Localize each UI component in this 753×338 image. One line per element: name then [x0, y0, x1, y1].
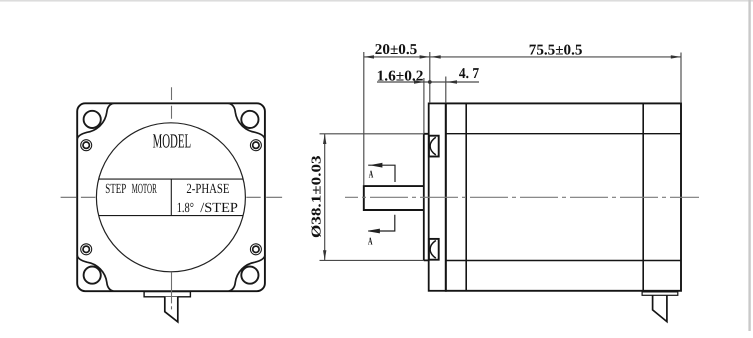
section marker top	[368, 165, 395, 182]
motor face square	[77, 103, 265, 291]
arrow dia bottom	[323, 250, 326, 260]
corner ear TR	[229, 103, 265, 150]
ext line body rear	[680, 53, 682, 104]
svg-text:Ø38.1±0.03: Ø38.1±0.03	[309, 155, 324, 238]
face circle	[96, 123, 245, 272]
vertical centerline top	[171, 87, 173, 118]
svg-text:2-PHASE: 2-PHASE	[186, 182, 229, 197]
arrow 75.5 right	[671, 55, 681, 58]
arrow 20 left	[364, 55, 374, 58]
svg-text:MODEL: MODEL	[153, 130, 192, 152]
arrow 20 right	[420, 55, 430, 58]
dia38.1 dim line	[324, 134, 326, 260]
front cap boundary	[465, 103, 467, 290]
bottom ear band line	[446, 260, 681, 262]
page right border	[748, 0, 750, 331]
label band bottom line	[99, 215, 244, 217]
svg-text:STEP: STEP	[105, 182, 126, 197]
body outline	[446, 103, 681, 290]
dim line 1.6 / 4.7	[377, 81, 479, 83]
arrow 1.6	[414, 80, 424, 83]
svg-text:A: A	[368, 236, 373, 247]
vertical centerline bottom	[171, 272, 173, 309]
front view centerlines	[61, 87, 283, 309]
svg-text:75.5±0.5: 75.5±0.5	[529, 42, 583, 58]
pilot boss	[424, 134, 429, 261]
junction dot	[428, 80, 432, 84]
svg-text:1.8°: 1.8°	[177, 201, 194, 216]
corner ear BR	[229, 244, 265, 291]
horizontal centerline right	[246, 196, 282, 198]
bottom connector base	[144, 292, 190, 297]
ext line shaft end	[363, 52, 365, 186]
page top border	[0, 0, 753, 2]
arrow 75.5 left	[431, 55, 441, 58]
dia38.1 ext top	[320, 133, 425, 135]
corner ear BL	[77, 244, 113, 291]
screw head bottom	[429, 239, 439, 260]
corner ear TL	[77, 103, 113, 150]
horizontal centerline left	[61, 196, 96, 198]
label band divider	[170, 179, 172, 216]
svg-text:A: A	[369, 169, 374, 180]
ext line flange face	[429, 52, 431, 103]
rear cap boundary	[642, 103, 644, 290]
bottom connector wedge	[165, 297, 178, 322]
dia38.1 ext bottom	[320, 259, 425, 261]
ext line boss face	[423, 78, 425, 134]
screw head top	[429, 136, 439, 157]
section marker bottom	[368, 215, 395, 231]
small pilot hole (double circle)	[81, 140, 92, 151]
svg-text:MOTOR: MOTOR	[132, 182, 158, 197]
svg-text:1.6±0.2: 1.6±0.2	[377, 68, 424, 84]
svg-text:4. 7: 4. 7	[459, 66, 480, 82]
rear connector wedge	[653, 295, 667, 321]
shaft	[364, 186, 424, 210]
rear connector base	[642, 292, 678, 295]
ext line flange rear	[445, 77, 447, 104]
label band top line	[99, 178, 244, 180]
arrow dia top	[323, 134, 326, 144]
mounting hole	[84, 111, 101, 128]
arrow 4.7	[447, 80, 457, 83]
svg-text:20±0.5: 20±0.5	[375, 42, 417, 58]
dim line 20 / 75.5	[364, 56, 681, 58]
ear arc	[77, 103, 113, 139]
svg-text:/STEP: /STEP	[200, 201, 238, 216]
top ear band line	[446, 133, 681, 135]
front flange plate	[429, 103, 446, 290]
side view centerline	[345, 196, 699, 198]
